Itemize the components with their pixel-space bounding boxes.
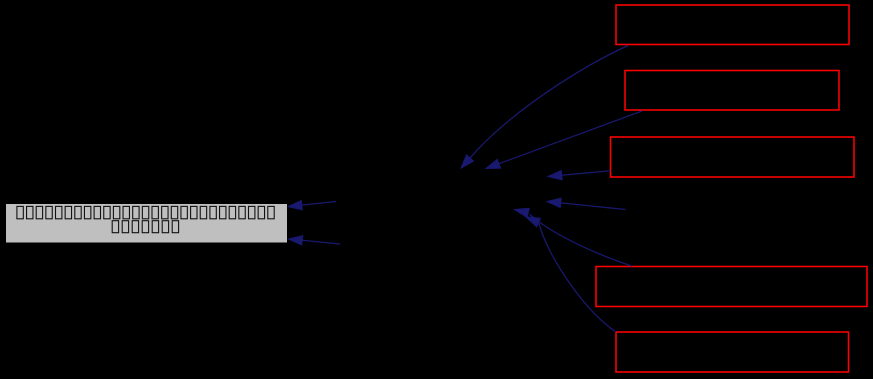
node F label line 2 (7 tofu glyphs) [112, 221, 178, 233]
edge h: red box R5 to node A (curved) [526, 217, 616, 332]
edge c: red box R1 to node A (curved) [461, 46, 628, 169]
edge d: red box R2 to node A [486, 111, 642, 169]
node F current function (gray box) [6, 204, 288, 244]
edge e: red box R3 to node A [548, 171, 611, 180]
caller box R4 [596, 267, 867, 307]
caller box R2 [625, 71, 839, 111]
edge b: node B to gray box F [289, 236, 341, 245]
caller box R5 (bottom red) [616, 332, 849, 372]
caller box R3 [611, 137, 855, 177]
edge a: node A to gray box F [288, 201, 336, 210]
caller box R1 (top red) [616, 5, 849, 45]
edge g: red box R4 to node A (curved) [515, 208, 633, 266]
edge f: node C to node A [547, 198, 626, 209]
node F label line 1 (27 tofu glyphs) [17, 206, 274, 218]
